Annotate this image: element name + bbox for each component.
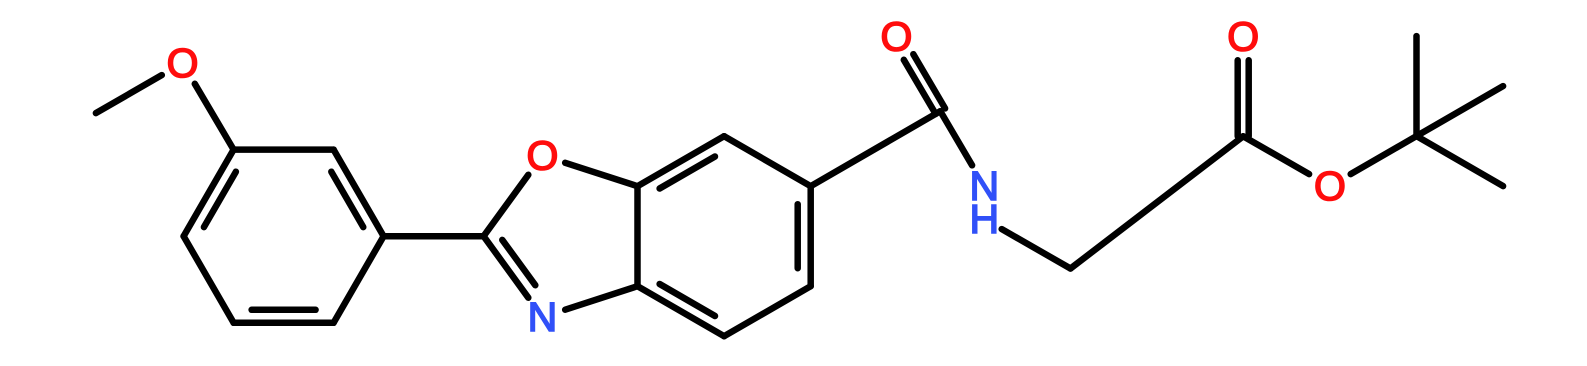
bond C6-C(=O) amide xyxy=(811,111,941,186)
bond C-CH3 a xyxy=(1417,86,1504,136)
bond CH3-O methoxy xyxy=(96,75,162,113)
bond phenyl-C2 oxazole xyxy=(384,233,484,240)
svg-text:H: H xyxy=(969,196,999,242)
bond O1-C7a xyxy=(565,163,637,186)
benzo edge C3a-C7a xyxy=(634,186,641,286)
bond C2-O1 xyxy=(484,175,529,236)
benzo edge C7a-C7 xyxy=(638,136,725,186)
benzo edge C7-C6 xyxy=(724,136,811,186)
double bond C=O ester xyxy=(1234,60,1241,136)
bond CH2-CH2-C ester chain xyxy=(1071,136,1244,268)
inner line C2=N3 xyxy=(502,240,535,285)
svg-text:O: O xyxy=(167,40,199,86)
bond C-O ester xyxy=(1243,136,1309,174)
bond C-N amide xyxy=(940,111,972,165)
benzo inner double C6-C5 xyxy=(794,204,801,268)
double bond C=O amide xyxy=(904,60,936,114)
benzo edge C5-C4 xyxy=(724,286,811,336)
svg-text:O: O xyxy=(526,132,558,178)
benzo edge C6-C5 xyxy=(807,186,814,286)
bond C-CH3 c xyxy=(1413,36,1420,136)
left phenyl inner double C1'-C2' xyxy=(331,172,363,227)
bond O-C tert-butyl xyxy=(1351,136,1417,174)
double bond C=O amide xyxy=(913,54,945,108)
bond N3-C3a xyxy=(565,286,637,310)
svg-text:N: N xyxy=(528,294,558,340)
benzo inner double C7a-C7 xyxy=(660,157,715,189)
benzo inner double C4-C3a xyxy=(660,284,715,316)
bond N-CH2 xyxy=(1002,229,1071,268)
svg-text:O: O xyxy=(880,13,912,59)
left phenyl edge C3'-C4' xyxy=(184,150,234,237)
left phenyl edge C5'-C6' xyxy=(234,320,334,327)
bond C2=N3 main xyxy=(484,236,529,298)
benzo edge C4-C3a xyxy=(638,286,725,336)
left phenyl edge C2'-C3' xyxy=(234,146,334,153)
left phenyl edge C6'-C1' xyxy=(334,236,384,323)
left phenyl edge C4'-C5' xyxy=(184,236,234,323)
left phenyl inner double C5'-C6' xyxy=(252,307,316,314)
left phenyl edge C1'-C2' xyxy=(334,150,384,237)
bond C-CH3 b xyxy=(1417,136,1504,186)
svg-text:O: O xyxy=(1314,163,1346,209)
double bond C=O ester xyxy=(1245,60,1252,136)
left phenyl inner double C3'-C4' xyxy=(204,172,236,227)
bond O-aryl methoxy xyxy=(195,84,234,150)
svg-text:O: O xyxy=(1227,13,1259,59)
